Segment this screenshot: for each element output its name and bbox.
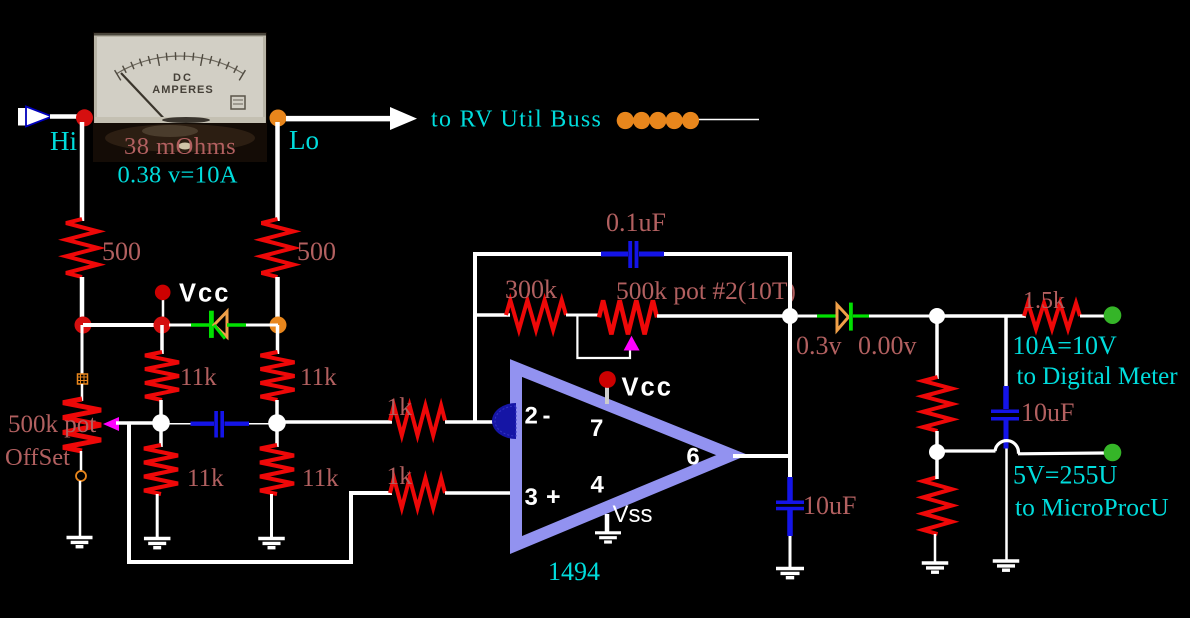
- ground divider: [922, 563, 949, 572]
- potentiometer 500k #2: [599, 300, 657, 334]
- resistor 300k: [506, 300, 566, 330]
- wire 11k to node B: [275, 400, 279, 423]
- node Lo: [270, 110, 287, 127]
- svg-text:0.3v: 0.3v: [796, 331, 842, 360]
- wire Lo node down: [276, 325, 280, 354]
- wire Vcc stub: [162, 295, 165, 325]
- wire to 300k: [475, 313, 510, 317]
- power Vcc dot opamp: [599, 371, 616, 388]
- ground 10uF right: [993, 561, 1020, 570]
- ground mid: [144, 539, 171, 548]
- wire divider node right: [937, 449, 996, 452]
- svg-text:1k: 1k: [387, 461, 413, 490]
- power Vcc dot left: [155, 285, 171, 301]
- terminal hatched square: [78, 374, 88, 384]
- svg-text:to Digital Meter: to Digital Meter: [1017, 363, 1179, 390]
- svg-text:500: 500: [102, 237, 141, 266]
- wire divider mid: [935, 431, 939, 452]
- svg-text:6: 6: [686, 443, 699, 470]
- svg-text:7: 7: [590, 415, 603, 442]
- wire mid node down: [160, 325, 164, 354]
- svg-text:500k pot #2(10T): 500k pot #2(10T): [616, 276, 796, 305]
- wire wiper branch to pin3: [129, 423, 392, 562]
- wire pot to terminal circle: [80, 451, 83, 471]
- ground pot: [67, 538, 93, 547]
- wire 10uF to ground: [789, 536, 792, 568]
- wire terminal to pot: [81, 384, 84, 401]
- capacitor 10uF right: [991, 386, 1019, 449]
- wire Lo vertical upper: [275, 122, 280, 221]
- wire Lo to buss arrow: [286, 116, 392, 122]
- svg-text:500k pot: 500k pot: [8, 411, 96, 438]
- ground right: [258, 539, 285, 548]
- wire pot2 wiper step: [577, 316, 630, 358]
- terminal green 10V: [1104, 306, 1122, 324]
- wire 500R to node Lo2: [275, 277, 280, 325]
- svg-text:1.5k: 1.5k: [1023, 288, 1065, 314]
- svg-text:10uF: 10uF: [1021, 398, 1074, 427]
- resistor divider upper: [923, 377, 952, 431]
- svg-text:0.1uF: 0.1uF: [606, 208, 666, 237]
- wire 300k to pot2: [566, 314, 600, 317]
- wire 500 to node: [80, 277, 85, 325]
- svg-text:Vcc: Vcc: [179, 280, 230, 308]
- wire node A down: [159, 423, 163, 447]
- wire 10uF branch top: [1004, 316, 1008, 387]
- wire 10uF to bump: [1005, 449, 1008, 562]
- diode D2: [798, 303, 930, 331]
- svg-text:5V=255U: 5V=255U: [1013, 461, 1117, 490]
- node Lo junction: [270, 317, 287, 334]
- input arrow: [18, 107, 52, 127]
- resistor 500 right: [262, 219, 294, 277]
- capacitor 10uF output: [776, 477, 804, 536]
- svg-text:Vss: Vss: [613, 501, 653, 528]
- wire divider node down: [935, 452, 939, 479]
- node A: [152, 414, 170, 432]
- capacitor 0.1uF: [601, 241, 664, 268]
- wire 1.5k to terminal: [1080, 315, 1104, 318]
- ground output: [776, 569, 804, 578]
- resistor 1k pin2: [390, 406, 445, 436]
- pot wiper arrow: [103, 417, 119, 431]
- svg-text:Hi: Hi: [50, 126, 77, 156]
- wire Vss stub: [605, 514, 610, 532]
- wire crossover bump: [995, 441, 1018, 454]
- node left junction: [75, 317, 92, 334]
- resistor 11k mid-top: [145, 352, 179, 400]
- diode D1: [169, 311, 278, 339]
- ammeter photo: [93, 32, 267, 162]
- svg-text:10uF: 10uF: [803, 491, 856, 520]
- wire node to pot terminal: [81, 325, 84, 375]
- wire to ground mid: [156, 494, 159, 539]
- svg-text:38 mOhms: 38 mOhms: [124, 133, 236, 160]
- node divider mid: [929, 444, 945, 460]
- wire pot2 to output node: [657, 314, 790, 318]
- wire feedback top: [473, 252, 792, 256]
- svg-text:3: 3: [525, 484, 538, 511]
- wire feedback left vertical: [473, 254, 477, 422]
- op-amp inverting input bubble: [492, 403, 516, 439]
- svg-text:AMPERES: AMPERES: [152, 84, 213, 96]
- svg-text:Lo: Lo: [289, 125, 319, 155]
- svg-text:4: 4: [591, 472, 605, 499]
- svg-text:-: -: [543, 403, 551, 430]
- svg-text:to MicroProcU: to MicroProcU: [1015, 493, 1169, 522]
- wire 11k to node A: [159, 400, 163, 423]
- resistor 1k pin3: [390, 478, 445, 508]
- wire divider to ground: [934, 534, 937, 563]
- svg-text:300k: 300k: [505, 275, 557, 304]
- resistor 11k right-top: [261, 352, 295, 400]
- ground Vss: [595, 533, 621, 542]
- svg-text:OffSet: OffSet: [5, 444, 70, 471]
- wire bump to terminal: [1018, 451, 1104, 455]
- resistor 1.5k: [1024, 303, 1080, 329]
- pot2 wiper arrow: [624, 336, 640, 351]
- wire node B down: [275, 423, 279, 447]
- op-amp U1 triangle: [516, 368, 732, 545]
- node divider top: [929, 308, 945, 324]
- wire node B to 1k: [277, 420, 392, 424]
- wire to ground right: [270, 494, 273, 539]
- resistor 11k right-bottom: [260, 445, 294, 494]
- svg-text:11k: 11k: [302, 465, 339, 492]
- wire pin6 output: [733, 454, 790, 458]
- wire 1k to pin2: [445, 420, 505, 424]
- wire 1k to pin3: [445, 491, 512, 495]
- wire divider top: [935, 316, 939, 379]
- wire circle to ground: [79, 481, 82, 537]
- svg-text:to RV Util Buss: to RV Util Buss: [431, 107, 602, 133]
- capacitor C1: [161, 411, 277, 438]
- svg-text:500: 500: [297, 237, 336, 266]
- potentiometer 500k OffSet: [63, 399, 101, 451]
- node middle junction: [154, 317, 171, 334]
- svg-text:1494: 1494: [548, 557, 600, 586]
- resistor 500 left: [66, 219, 98, 277]
- wire feedback right vertical: [788, 254, 792, 478]
- terminal green 5V: [1104, 444, 1122, 462]
- node Hi: [76, 109, 93, 126]
- svg-text:Vcc: Vcc: [622, 374, 673, 402]
- resistor divider lower: [923, 477, 952, 534]
- node B: [268, 414, 286, 432]
- svg-text:0.00v: 0.00v: [858, 331, 917, 360]
- terminal open circle: [76, 471, 86, 481]
- svg-text:0.38 v=10A: 0.38 v=10A: [118, 162, 238, 189]
- wire Hi vertical upper: [80, 122, 85, 221]
- wire Vcc stub opamp: [605, 385, 609, 404]
- svg-text:11k: 11k: [187, 465, 224, 492]
- resistor 11k mid-bottom: [144, 445, 178, 494]
- svg-text:+: +: [546, 483, 561, 511]
- buss beads: [617, 112, 699, 129]
- buss wire thin: [620, 119, 759, 121]
- svg-text:11k: 11k: [180, 364, 217, 391]
- svg-text:10A=10V: 10A=10V: [1013, 331, 1117, 360]
- wire left node to middle node: [83, 323, 162, 327]
- wire wiper to node A: [116, 421, 161, 425]
- svg-text:11k: 11k: [300, 364, 337, 391]
- svg-text:2: 2: [525, 403, 538, 430]
- svg-text:DC: DC: [173, 72, 193, 84]
- node output: [782, 308, 798, 324]
- svg-text:1k: 1k: [387, 392, 413, 421]
- arrowhead to RV Util Buss: [390, 107, 417, 130]
- wire D2 to divider node: [930, 314, 1026, 318]
- wire input to Hi node: [50, 114, 79, 119]
